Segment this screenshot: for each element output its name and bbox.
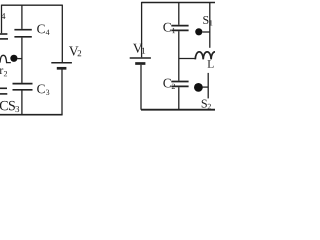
inductor Lr2 cut at left edge (0, 55, 11, 62)
wire V1 branch lower (140, 65, 142, 110)
node switch pole dot S2 (194, 83, 203, 92)
capacitor CS3 cut at left edge (0, 88, 7, 94)
label C2 (163, 79, 175, 89)
wire V1 branch upper (141, 2, 143, 57)
capacitor C4 (14, 30, 31, 37)
wire top rail left circuit (2, 4, 63, 6)
wire C branch top segment (21, 5, 23, 29)
capacitor C1 (171, 26, 188, 31)
label C3 (37, 84, 49, 95)
label V2 (69, 46, 81, 56)
label r2 (0, 68, 7, 76)
wire C branch right circuit bottom (178, 87, 180, 110)
wire C branch right circuit top (178, 3, 180, 25)
capacitor CS4 cut at left edge (0, 34, 8, 39)
wire V2 branch upper (61, 5, 63, 62)
wire C branch middle segment (21, 38, 23, 83)
battery V2 (51, 63, 72, 69)
wire S1 leg (209, 3, 211, 48)
label CS3 (0, 101, 19, 112)
wire top rail right circuit (142, 2, 215, 4)
wire left rail upper segment (1, 5, 3, 34)
label C4 (37, 24, 49, 34)
wire bottom rail right circuit (141, 109, 215, 111)
wire middle rail to inductor (179, 58, 196, 60)
wire bottom rail left circuit (0, 114, 63, 116)
label S1 (203, 16, 212, 26)
wire C branch bottom segment (21, 91, 23, 115)
capacitor C2 (171, 82, 188, 87)
battery V1 (130, 58, 151, 64)
wire C branch right circuit middle (178, 31, 180, 80)
label S2 (202, 100, 211, 110)
wire stub S2 (202, 86, 208, 88)
node switch pole dot left (10, 55, 17, 62)
inductor L (195, 52, 219, 60)
label L (208, 60, 214, 68)
wire stub from dot to C branch (17, 58, 22, 60)
label C1 (163, 23, 175, 33)
capacitor C3 (13, 84, 33, 90)
label V1 (133, 44, 145, 54)
wire S2 leg (207, 73, 209, 99)
node switch pole dot S1 (195, 28, 202, 35)
wire V2 branch lower (61, 70, 63, 115)
wire stub S1 (202, 31, 209, 33)
label S4 cut at left edge (1, 13, 5, 19)
